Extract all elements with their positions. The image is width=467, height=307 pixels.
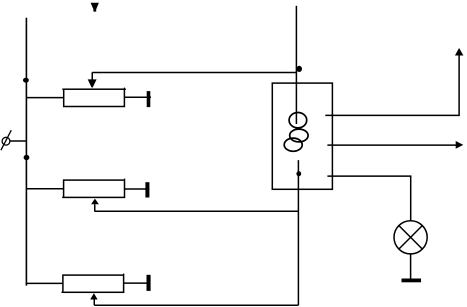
junction node C (center rail / wiper 1) — [296, 66, 302, 72]
wiper arrow of R2 (up into resistor) — [91, 199, 99, 212]
gauge coil circle 2 — [290, 129, 308, 142]
center rail wire (top feed) — [295, 6, 297, 124]
ground bar terminator of R2 — [145, 182, 149, 197]
output wire 2 (to right arrow) — [327, 144, 456, 146]
wire R1 wiper to center rail — [92, 72, 296, 74]
left supply rail wire — [25, 18, 27, 286]
power feed arrow (down, top left) — [91, 3, 99, 12]
lamp L1 cross — [399, 226, 423, 250]
output arrow 2 head (right) — [456, 141, 464, 149]
wire R2 to ground bar — [125, 188, 150, 190]
ground symbol (bar) — [402, 279, 422, 283]
wire switch to left rail — [10, 140, 27, 142]
junction node A (left rail upper) — [23, 78, 29, 83]
wire left rail to R2 — [26, 188, 63, 190]
wire R3 to ground bar — [124, 282, 151, 284]
wiper arrow of R1 (down into resistor) — [88, 72, 97, 87]
gauge coil circle 1 — [289, 113, 307, 128]
wire lamp to ground — [410, 254, 412, 279]
lamp L1 circle — [394, 221, 427, 254]
center rail wire (lower run to bottom) — [297, 160, 299, 305]
gauge coil circle 3 — [284, 138, 302, 151]
ground bar terminator of R3 — [147, 275, 151, 291]
output arrow 1 head (up) — [455, 48, 464, 56]
junction node B (left rail middle) — [24, 155, 30, 160]
wire left rail to R1 — [26, 97, 63, 99]
resistor R1 (variable sender) body — [62, 88, 126, 107]
ground bar terminator of R1 — [147, 91, 151, 107]
wire R2 wiper to center rail — [95, 210, 299, 212]
wire R1 to ground bar — [124, 96, 151, 98]
resistor R3 (variable sender) body — [61, 274, 123, 293]
switch S1 blade (diagonal) — [1, 130, 11, 150]
wire left rail to R3 — [26, 282, 63, 284]
junction node D (center rail lower, inside box) — [296, 171, 301, 176]
gauge unit U1 box — [272, 83, 332, 189]
output wire 3 (to lamp) — [327, 176, 410, 221]
output wire 1 (to up arrow) — [325, 55, 459, 115]
wire R3 wiper to center rail (bottom run) — [94, 304, 298, 306]
wiper arrow of R3 (up into resistor) — [90, 293, 97, 305]
switch S1 circle — [2, 137, 10, 145]
resistor R2 (variable sender) body — [62, 179, 124, 198]
